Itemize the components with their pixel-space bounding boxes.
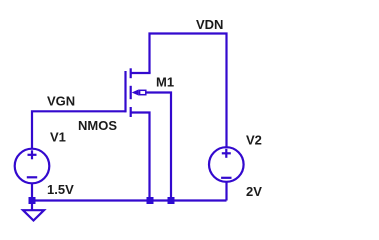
svg-text:1.5V: 1.5V <box>47 182 74 197</box>
svg-text:V1: V1 <box>50 130 66 145</box>
svg-text:M1: M1 <box>156 75 174 90</box>
svg-text:VGN: VGN <box>47 94 75 109</box>
svg-text:2V: 2V <box>246 184 262 199</box>
svg-text:VDN: VDN <box>196 17 223 32</box>
svg-text:V2: V2 <box>246 133 262 148</box>
svg-text:NMOS: NMOS <box>78 118 117 133</box>
